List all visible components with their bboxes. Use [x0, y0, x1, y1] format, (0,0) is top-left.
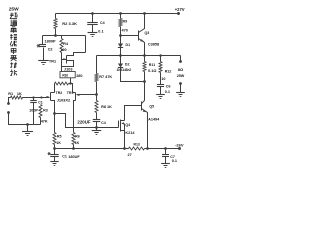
svg-text:1800P: 1800P: [45, 39, 56, 43]
capacitor C2 1800P: [39, 44, 46, 46]
resistor R6 1K: [72, 133, 75, 145]
svg-text:R8 1K: R8 1K: [101, 105, 112, 109]
wire Q4 drain lead: [121, 120, 125, 122]
wire C2 top lead: [42, 36, 44, 45]
svg-text:1N4148×2: 1N4148×2: [117, 68, 132, 72]
wire Q4 source lead: [121, 131, 125, 149]
svg-text:27: 27: [128, 153, 132, 157]
node bias chain on output wire: [119, 54, 122, 57]
wire speaker bottom to ground: [180, 84, 182, 93]
resistor R4 100: [60, 39, 63, 53]
wire R7 top lead from output wire: [96, 56, 98, 74]
terminal +27V endpoint: [177, 12, 180, 15]
wire D1 to D2: [120, 48, 122, 64]
resistor R5 1K: [53, 133, 56, 145]
wire diff pair drain loop left riser: [54, 84, 56, 93]
wire output corner down to speaker: [180, 56, 182, 61]
resistor R13 27 (emitter resistor): [129, 147, 145, 150]
svg-text:25W: 25W: [177, 74, 185, 78]
node rail / Q5 emitter: [146, 147, 149, 150]
node C1 tap: [32, 96, 34, 98]
diode D2: [118, 64, 123, 68]
svg-text:C4: C4: [100, 21, 105, 25]
node Q3 base tap: [119, 34, 122, 37]
wire R5 bottom to rail: [54, 145, 56, 149]
node rail / C7: [164, 147, 167, 150]
svg-text:+27V: +27V: [175, 7, 185, 12]
wire output node horizontal: [97, 55, 181, 57]
svg-text:1K: 1K: [17, 92, 22, 96]
wire input ground bus: [9, 113, 41, 125]
capacitor C1 180UF electrolytic: [50, 154, 58, 156]
svg-text:TR3: TR3: [67, 91, 74, 95]
ground below C1 cap: [50, 161, 58, 163]
transistor TR2 J103 channel bar: [50, 93, 52, 101]
star marker for C1 cap: [48, 153, 51, 155]
resistor R1: [11, 96, 23, 99]
wire R9 top lead: [120, 14, 122, 19]
wire input terminal up to R1: [9, 98, 11, 104]
node top rail / C4: [91, 12, 94, 15]
wire TR1 drain to cell right edge: [67, 53, 86, 56]
wire R12 to C6: [160, 73, 162, 85]
star marker for C2: [37, 45, 40, 47]
ground below top C4: [88, 32, 98, 34]
wire +27V top supply rail: [56, 13, 179, 15]
terminal -26V endpoint: [178, 147, 181, 150]
resistor R8 1K: [95, 101, 98, 113]
wire TR2 source step and down: [51, 101, 55, 114]
capacitor C4 0.1 (top): [87, 22, 98, 24]
svg-text:Q3: Q3: [145, 31, 150, 35]
transistor Q3 base bar: [138, 31, 140, 41]
svg-text:R6: R6: [75, 135, 80, 139]
svg-text:C1: C1: [38, 100, 43, 104]
resistor R12 10: [159, 62, 162, 73]
svg-text:100: 100: [60, 48, 66, 52]
node TR2 source junction: [53, 112, 56, 115]
svg-text:R3: R3: [43, 109, 48, 113]
wire R4 bottom down to gate node and box resistor: [61, 53, 63, 72]
wire R6 bottom to rail: [73, 145, 75, 149]
node zobel tap: [159, 54, 162, 57]
ground below speaker: [176, 92, 185, 94]
node Q3 emitter / output: [143, 54, 146, 57]
svg-text:C6: C6: [166, 84, 171, 88]
wire TR3 gate lead: [77, 94, 97, 96]
wire C6 bottom lead: [160, 87, 162, 95]
node R3 tap: [40, 96, 42, 98]
svg-text:K214: K214: [125, 131, 135, 135]
wire C4 bottom lead: [96, 122, 98, 128]
wire R8 bottom to C4 cap: [96, 113, 98, 120]
svg-text:Q5: Q5: [149, 105, 154, 109]
node top rail / Q3 collector: [143, 12, 146, 15]
svg-text:D1: D1: [126, 43, 131, 47]
svg-text:R10: R10: [62, 74, 68, 78]
svg-text:R12: R12: [165, 69, 172, 73]
wire R11 bottom to driver node: [144, 72, 146, 101]
svg-text:R1: R1: [8, 92, 13, 96]
diode D1: [118, 44, 123, 48]
ground at input: [22, 131, 33, 133]
svg-text:C3858: C3858: [148, 43, 159, 47]
wire C7 top lead: [165, 149, 167, 155]
svg-text:R5: R5: [57, 135, 62, 139]
svg-text:A1494: A1494: [148, 117, 160, 121]
svg-text:0.1Ω: 0.1Ω: [148, 69, 156, 73]
wire diff pair drain loop right segment: [69, 84, 73, 93]
svg-text:8Ω: 8Ω: [178, 67, 184, 72]
wire R3 bottom lead: [40, 118, 42, 125]
node rail / R6: [72, 147, 75, 150]
wire TR2 source to R5: [54, 114, 56, 133]
svg-text:Q4: Q4: [125, 123, 130, 127]
svg-text:180UF: 180UF: [68, 155, 80, 159]
svg-text:R11: R11: [149, 63, 155, 67]
transistor TR2 gate arrow: [47, 96, 50, 98]
wire C1 cap bottom lead: [54, 157, 56, 162]
transistor TR1 J103 gate arrow: [63, 58, 66, 60]
capacitor C6 0.1: [157, 84, 164, 86]
wire TR1 gate lead: [62, 59, 67, 61]
resistor loop 280 zigzag: [55, 82, 69, 85]
wire Q3 base wire: [121, 35, 139, 37]
transistor TR3 gate arrow: [76, 94, 79, 96]
wire box resistor bottom lead: [70, 78, 72, 84]
wire R11 top: [144, 56, 146, 62]
svg-text:R7 47K: R7 47K: [99, 75, 112, 79]
wire tail jog to K214 gate bus: [55, 114, 119, 128]
svg-text:0.1: 0.1: [172, 159, 177, 163]
svg-text:C1: C1: [62, 155, 67, 159]
terminal speaker bottom: [179, 82, 182, 85]
wire TR1 source: [62, 61, 74, 67]
svg-text:47K: 47K: [41, 120, 48, 124]
wire R9 to D1: [120, 27, 122, 44]
wire TR3 source step and down: [74, 101, 76, 133]
svg-text:R13: R13: [134, 143, 140, 147]
terminal input hot: [7, 102, 10, 105]
node input ground junction: [26, 123, 29, 126]
wire ground stem: [27, 125, 29, 132]
wire rail corner down to R2: [55, 14, 57, 19]
svg-text:C2: C2: [48, 47, 53, 51]
wire TR3 drain step: [73, 92, 76, 94]
terminal input cold: [7, 111, 10, 114]
wire bottom rail right section: [145, 148, 180, 150]
capacitor C7 0.1: [162, 154, 169, 156]
wire input node: [23, 97, 50, 99]
wire R2 bottom to mid rail: [55, 29, 57, 36]
ground below C7: [161, 163, 170, 165]
svg-text:TR1: TR1: [49, 60, 56, 64]
svg-text:J103X2: J103X2: [57, 97, 71, 102]
node driver node (D2 wire join): [143, 80, 146, 83]
wire D2 down and across to driver node: [121, 68, 145, 82]
node rail / Q4 source: [123, 147, 126, 150]
capacitor C1 100P: [30, 100, 37, 102]
transistor Q5 base bar: [141, 102, 143, 111]
wire ground stem below gate bus: [96, 128, 98, 131]
wire Q3 collector: [139, 14, 145, 33]
svg-text:R9: R9: [123, 20, 128, 24]
wire Q3 emitter: [139, 39, 145, 56]
svg-text:0.1: 0.1: [98, 29, 103, 33]
wire Q5 collector: [142, 101, 145, 104]
wire feedback node to R8: [96, 95, 98, 101]
node top rail / R9: [119, 12, 122, 15]
wire R4 top lead: [61, 36, 63, 39]
resistor R9 470: [119, 19, 122, 27]
wire C7 bottom lead: [165, 157, 167, 164]
wire C4 top lead: [92, 14, 94, 23]
svg-text:10: 10: [161, 77, 165, 81]
node box lead / drain loop: [69, 82, 71, 84]
wire bottom rail left section: [55, 148, 129, 150]
transistor TR1 J103 channel bar: [66, 56, 68, 64]
svg-text:D2: D2: [125, 63, 130, 67]
wire C1 bottom lead: [33, 103, 35, 125]
wire C1 cap top lead: [54, 149, 56, 155]
terminal speaker top: [179, 60, 182, 63]
svg-text:1K: 1K: [75, 141, 80, 145]
wire R7 bottom to feedback node: [96, 82, 98, 95]
wire TR2 drain step: [51, 92, 55, 94]
transistor Q5 emitter arrow: [143, 110, 147, 113]
node R2 / C2-R4 rail: [54, 34, 57, 37]
wire Q4 body link: [124, 124, 126, 131]
ground below 220UF: [92, 130, 102, 132]
transistor Q4 K214 gate bar: [118, 121, 120, 128]
ground below C6: [156, 94, 165, 96]
node gate bus / C4 ground: [95, 126, 98, 129]
transistor TR3 J103 channel bar: [75, 93, 77, 101]
capacitor C4 220UF: [93, 119, 101, 121]
wire C4 bottom lead: [92, 25, 94, 33]
svg-text:0.1: 0.1: [165, 90, 170, 94]
svg-text:-26V: -26V: [175, 143, 184, 148]
wire Q5 base from K214 drain: [125, 106, 142, 121]
wire C1 top lead: [33, 98, 35, 101]
resistor R2: [54, 19, 57, 29]
svg-text:280: 280: [76, 74, 82, 78]
svg-text:1K: 1K: [56, 141, 61, 145]
wire C2-R4 top rail: [43, 35, 86, 37]
svg-text:470: 470: [122, 29, 128, 33]
transistor Q4 body arrow: [121, 122, 124, 124]
ground below C2: [38, 60, 49, 62]
resistor R7 47K: [95, 74, 98, 82]
wire R12 top lead: [160, 56, 162, 62]
resistor R11 0.1: [143, 62, 146, 72]
svg-text:220UF: 220UF: [77, 120, 90, 125]
wire Q5 emitter: [142, 109, 148, 149]
resistor R10 280 (box style): [60, 72, 75, 78]
resistor R3 47K: [39, 105, 42, 118]
transistor Q4 K214 channel bar: [120, 120, 122, 132]
node feedback: [95, 93, 98, 96]
transistor Q3 emitter arrow: [140, 39, 144, 42]
wire cell right edge from top rail to TR1 drain: [85, 36, 87, 53]
node rail / C1 cap: [53, 147, 56, 150]
svg-text:25W: 25W: [9, 6, 19, 12]
svg-text:R2 3.3K: R2 3.3K: [62, 21, 77, 26]
svg-text:TR2: TR2: [56, 91, 63, 95]
svg-text:C4: C4: [101, 121, 106, 125]
wire C2 bottom to ground: [43, 48, 45, 61]
